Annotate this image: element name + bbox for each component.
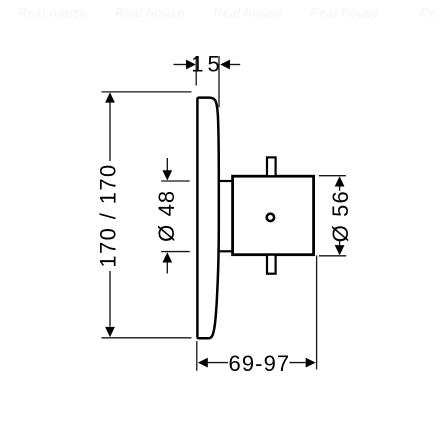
- dim 15 right line: [230, 64, 240, 66]
- sleeve top line: [218, 180, 233, 182]
- dim 48 text: [154, 190, 179, 242]
- dim 170/170 upper line: [109, 102, 111, 161]
- dim 69-97 right extension line: [316, 256, 318, 370]
- dim 69-97 right line: [290, 362, 306, 364]
- svg-text:Ø 56: Ø 56: [328, 190, 353, 242]
- dim 48 bottom arrowhead: [162, 252, 172, 262]
- dim 170/170 lower line: [109, 271, 111, 327]
- dim 69-97 left arrowhead: [198, 358, 208, 368]
- dim 15 right extension line: [218, 56, 220, 107]
- svg-text:Real house: Real house: [310, 5, 379, 20]
- svg-text:170 / 170: 170 / 170: [96, 163, 121, 267]
- dim 56 upper line: [339, 186, 341, 191]
- top tab: [267, 157, 276, 176]
- bottom tab: [267, 255, 276, 274]
- escutcheon plate (side profile): [197, 98, 218, 339]
- dim 69-97 left line: [208, 362, 228, 364]
- screw dot: [267, 214, 274, 221]
- dim 56 bottom arrowhead: [335, 245, 345, 255]
- dim 15 left line: [174, 64, 187, 66]
- dim 56 top arrowhead: [335, 176, 345, 186]
- valve body rectangle: [233, 176, 314, 255]
- dim 48 top tick: [161, 180, 190, 182]
- dim 170/170 text: [96, 163, 121, 267]
- svg-text:Ø 48: Ø 48: [154, 190, 179, 242]
- dim 69-97 right arrowhead: [306, 358, 316, 368]
- svg-text:Real house: Real house: [115, 5, 184, 20]
- dim 56 bottom extension line: [319, 255, 346, 257]
- watermark row: [18, 5, 437, 20]
- sleeve bottom line: [218, 250, 233, 252]
- dim 56 top extension line: [319, 175, 346, 177]
- dim 56 lower line: [339, 241, 341, 245]
- svg-text:Real house: Real house: [18, 5, 87, 20]
- dim 170/170 top extension line: [102, 91, 192, 93]
- dim 15 left arrowhead: [186, 60, 196, 70]
- dim 48 top arrowhead: [162, 170, 172, 180]
- dim 69-97 left extension line: [196, 341, 198, 371]
- dim 56 text: [328, 190, 353, 242]
- dim 48 top arrow line: [166, 158, 168, 171]
- dim 48 bottom tick: [161, 251, 190, 253]
- dim 170/170 bottom arrowhead: [105, 327, 115, 337]
- dim 48 bottom arrow line: [166, 262, 168, 273]
- dim 170/170 bottom extension line: [102, 337, 192, 339]
- svg-text:Real house: Real house: [213, 5, 282, 20]
- svg-text:Re: Re: [420, 5, 437, 20]
- dim 170/170 top arrowhead: [105, 92, 115, 102]
- dim 15 left extension line: [195, 56, 197, 86]
- svg-text:69-97: 69-97: [229, 351, 291, 376]
- dim 15 right arrowhead: [220, 60, 230, 70]
